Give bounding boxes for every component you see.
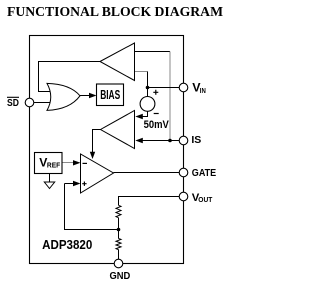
svg-text:IN: IN	[200, 86, 206, 95]
svg-text:GND: GND	[110, 271, 131, 282]
svg-text:GATE: GATE	[192, 167, 216, 179]
svg-text:ADP3820: ADP3820	[42, 238, 92, 252]
svg-text:OUT: OUT	[198, 195, 213, 204]
svg-text:FUNCTIONAL BLOCK DIAGRAM: FUNCTIONAL BLOCK DIAGRAM	[7, 4, 223, 19]
svg-text:SD: SD	[7, 98, 19, 109]
svg-text:REF: REF	[47, 161, 61, 170]
svg-text:50mV: 50mV	[144, 119, 170, 131]
svg-text:BIAS: BIAS	[100, 87, 120, 102]
svg-text:IS: IS	[191, 134, 201, 146]
